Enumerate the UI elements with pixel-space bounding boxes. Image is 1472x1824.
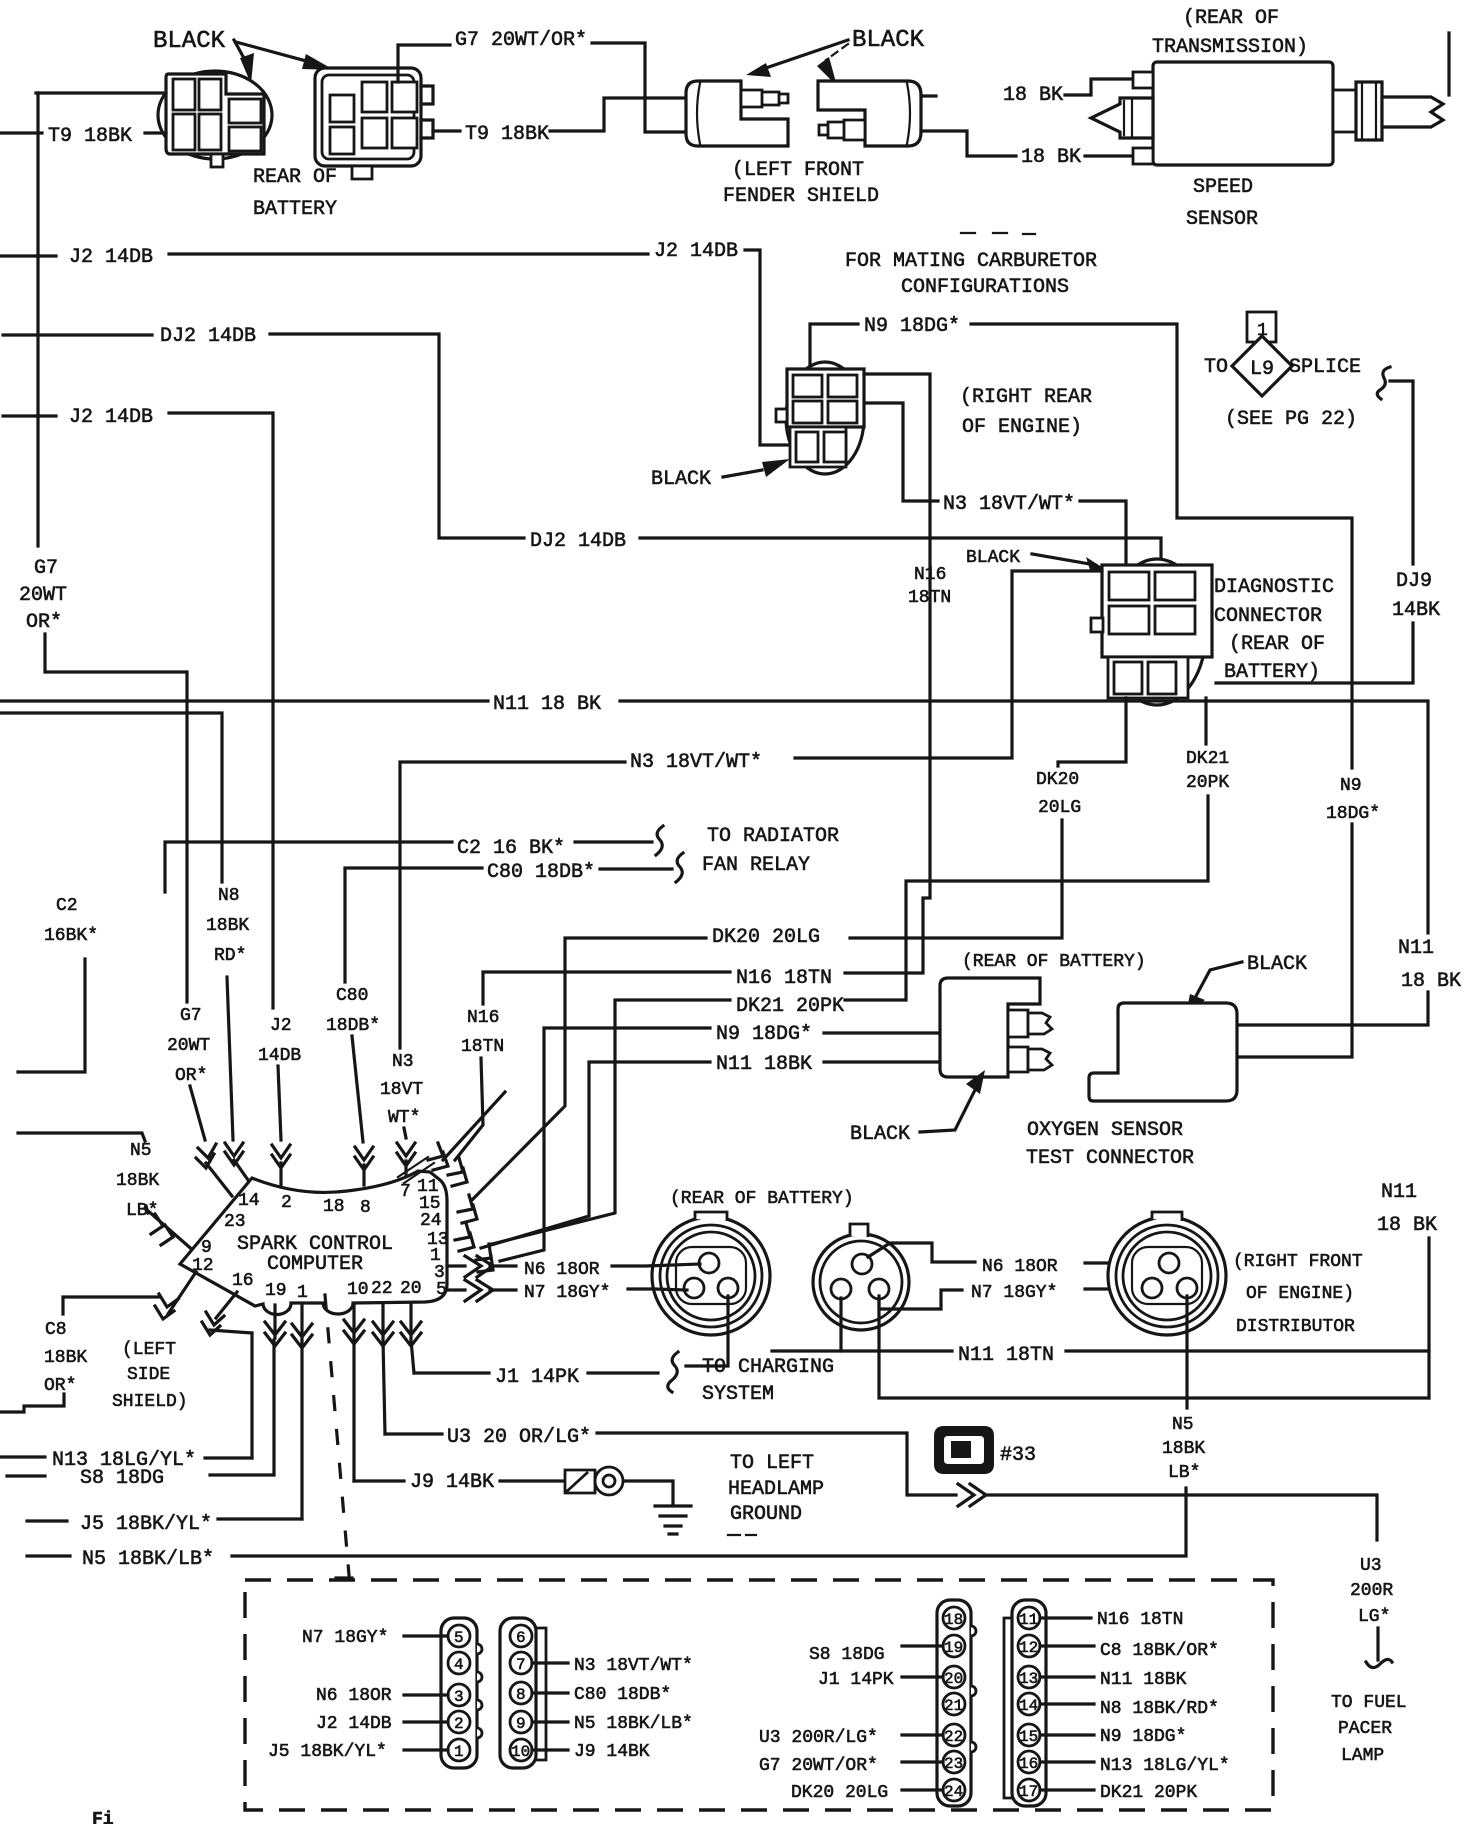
svg-text:3: 3 — [454, 1688, 464, 1706]
wire G7 to pin 23 — [902, 1760, 943, 1763]
holder D pin 16 — [1018, 1751, 1040, 1773]
carb connector back circle — [786, 362, 864, 474]
svg-text:N3: N3 — [392, 1052, 414, 1072]
svg-text:REAR OF: REAR OF — [253, 166, 337, 189]
break symbol radiator upper — [656, 826, 663, 855]
arrow to connector C2 — [236, 42, 334, 70]
connector C1 cavity 5 — [229, 99, 261, 123]
svg-text:BLACK: BLACK — [852, 27, 925, 54]
wire U3 below label to hook — [1376, 1628, 1379, 1660]
svg-text:J5 18BK/YL*: J5 18BK/YL* — [268, 1742, 387, 1762]
distributor middle inner circle — [820, 1241, 902, 1323]
svg-text:22: 22 — [371, 1279, 393, 1299]
headlamp bulb inner — [603, 1475, 615, 1487]
connector C2 cavity E — [362, 118, 387, 148]
speed sensor left plug — [1091, 98, 1153, 138]
svg-text:20: 20 — [944, 1670, 963, 1688]
svg-text:LB*: LB* — [126, 1201, 158, 1221]
wire N16 column down to pin 15 diagonal — [455, 1058, 483, 1160]
diagnostic connector lower body — [1108, 657, 1188, 698]
svg-text:SIDE: SIDE — [127, 1365, 170, 1385]
wire into C1 top left — [36, 91, 166, 94]
carb connector body lower — [790, 427, 846, 467]
holder B pin 7 — [510, 1652, 532, 1674]
bullet connector right body — [818, 81, 921, 146]
wire N3 second label right to diagnostic — [795, 571, 1102, 758]
connector C2 cavity C — [362, 82, 387, 112]
wire carb connector right mid to N3 label — [866, 403, 938, 501]
svg-text:14: 14 — [1019, 1697, 1038, 1715]
distributor right pin bl — [1142, 1278, 1162, 1298]
speed sensor shaft — [1382, 97, 1443, 127]
svg-text:SYSTEM: SYSTEM — [702, 1383, 774, 1406]
diagnostic connector cavity 5 — [1114, 662, 1142, 694]
distributor right pin top — [1159, 1253, 1179, 1273]
svg-text:SPEED: SPEED — [1193, 176, 1253, 199]
svg-text:5: 5 — [454, 1629, 464, 1647]
wire pin 8 to C80 — [532, 1691, 568, 1694]
distributor right inner circle — [1123, 1232, 1211, 1320]
wire C2 label left elbow down — [165, 842, 452, 892]
wire pin 14 to N8 — [1040, 1702, 1094, 1705]
spark control computer body — [180, 1171, 447, 1315]
svg-text:TO CHARGING: TO CHARGING — [702, 1356, 834, 1379]
wire N6 to pin 3 — [404, 1693, 448, 1696]
svg-text:20WT: 20WT — [19, 584, 67, 607]
svg-text:N7 18GY*: N7 18GY* — [524, 1283, 610, 1303]
splice wire curl — [1377, 367, 1390, 399]
holder A pin 3 — [448, 1684, 470, 1706]
arrow chevron pin 5 to N7 — [447, 1280, 516, 1301]
svg-text:DK21: DK21 — [1186, 749, 1229, 769]
wire stub left N5 — [18, 1133, 145, 1141]
wire right bullet to 18 BK upper — [921, 94, 936, 97]
arrow to connector C1 — [234, 40, 254, 84]
svg-text:18 BK: 18 BK — [1401, 970, 1461, 993]
svg-text:DJ2 14DB: DJ2 14DB — [160, 325, 256, 348]
svg-text:11: 11 — [1019, 1611, 1038, 1629]
svg-text:J1 14PK: J1 14PK — [495, 1366, 579, 1389]
svg-text:N5: N5 — [130, 1141, 152, 1161]
svg-text:FOR MATING CARBURETOR: FOR MATING CARBURETOR — [845, 250, 1097, 273]
wire U3 to pin 22 — [902, 1733, 943, 1736]
carb connector cavity 2 — [828, 375, 857, 397]
svg-text:16: 16 — [1019, 1755, 1038, 1773]
wire distributor left br pin to charging break — [686, 1296, 728, 1366]
svg-text:C80 18DB*: C80 18DB* — [487, 861, 595, 884]
dashed diagonal tick — [336, 1576, 352, 1579]
holder A pin 4 — [448, 1652, 470, 1674]
wire J1 to pin 20 — [902, 1675, 943, 1678]
svg-text:TRANSMISSION): TRANSMISSION) — [1152, 36, 1308, 59]
distributor middle pin top — [852, 1254, 872, 1274]
svg-text:(SEE PG 22): (SEE PG 22) — [1225, 408, 1357, 431]
svg-text:18BK: 18BK — [1162, 1439, 1205, 1459]
wire middle right pin to N7 bracket — [879, 1290, 962, 1309]
wire N7 right label to right distributor — [1085, 1287, 1145, 1290]
svg-text:N6 18OR: N6 18OR — [316, 1686, 392, 1706]
svg-text:14BK: 14BK — [1392, 599, 1440, 622]
svg-text:Fi: Fi — [92, 1810, 114, 1824]
wire main left vertical G7 — [36, 93, 39, 546]
svg-text:LB*: LB* — [1168, 1463, 1200, 1483]
wire N13 to vertical — [205, 1456, 252, 1459]
wire N7 left label to distributor — [628, 1289, 687, 1290]
svg-text:18 BK: 18 BK — [1377, 1214, 1437, 1237]
arrow chevron pin 2 — [272, 1145, 290, 1185]
wire G7 column to computer pin 23 — [190, 1086, 205, 1140]
arrow BLACK to left bullet — [746, 40, 848, 77]
arrow chevron pin 14 — [225, 1143, 248, 1180]
diagnostic connector body — [1102, 565, 1212, 657]
svg-text:22: 22 — [944, 1728, 963, 1746]
wire DJ2 to elbow — [270, 334, 524, 538]
wire DK21 left to corner vertical and diagonal to pin 13 — [492, 1000, 730, 1244]
wire C80 label right to break — [600, 867, 672, 870]
wire N3 label right into diagnostic connector — [1080, 501, 1126, 566]
arrow chevron pin 22 (down) — [373, 1305, 393, 1346]
speed sensor right boss — [1333, 90, 1356, 132]
arrow BLACK to right bullet (dashed shaft) — [817, 44, 848, 86]
svg-text:18DG*: 18DG* — [1326, 804, 1380, 824]
connector C1 cavity 2 — [199, 79, 221, 110]
svg-text:N11 18 BK: N11 18 BK — [493, 693, 601, 716]
svg-text:N16 18TN: N16 18TN — [1097, 1610, 1183, 1630]
wire N9 left stack right to oxygen connector — [824, 1031, 939, 1034]
holder B pin 8 — [510, 1682, 532, 1704]
wire N16 left stack right segment — [845, 971, 923, 974]
svg-text:GROUND: GROUND — [730, 1503, 802, 1526]
svg-text:8: 8 — [360, 1198, 371, 1218]
svg-text:BLACK: BLACK — [651, 468, 711, 491]
connector C1 cavity 3 — [173, 114, 195, 150]
svg-text:LG*: LG* — [1358, 1607, 1390, 1627]
wire DJ2 second to diagnostic connector — [640, 538, 1161, 566]
svg-text:N6 18OR: N6 18OR — [524, 1260, 600, 1280]
connector C2 bottom tab — [352, 166, 372, 179]
svg-text:U3 200R/LG*: U3 200R/LG* — [759, 1728, 878, 1748]
speed sensor hex nut — [1356, 82, 1382, 140]
svg-text:J2: J2 — [270, 1016, 292, 1036]
wire DK20 right to column vertical — [850, 820, 1062, 938]
svg-text:OR*: OR* — [44, 1376, 76, 1396]
svg-text:RD*: RD* — [214, 946, 246, 966]
wire N6 left label to distributor — [612, 1264, 700, 1266]
svg-text:S8 18DG: S8 18DG — [80, 1467, 164, 1490]
wire pin 10 to J9 — [532, 1748, 568, 1751]
arrow chevron pin 20 (down) — [401, 1305, 421, 1346]
svg-text:N8: N8 — [218, 886, 240, 906]
wire N11 left stack right to oxygen connector — [824, 1060, 939, 1063]
holder A pin 2 — [448, 1711, 470, 1733]
wire T9 label to bullet connector — [550, 98, 686, 131]
oxygen connector right body — [1089, 1003, 1237, 1101]
carb connector left tab — [776, 409, 787, 422]
speed sensor plug detail — [1124, 99, 1132, 137]
arrow BLACK to diagnostic connector — [1032, 554, 1116, 576]
carb connector cavity 5 — [796, 432, 818, 462]
svg-text:18: 18 — [323, 1197, 345, 1217]
svg-text:TEST CONNECTOR: TEST CONNECTOR — [1026, 1147, 1194, 1170]
speed sensor left upper terminal — [1133, 72, 1153, 88]
svg-text:20WT: 20WT — [167, 1036, 210, 1056]
svg-text:N8 18BK/RD*: N8 18BK/RD* — [1100, 1699, 1219, 1719]
stray dashes below bullets — [961, 233, 1035, 234]
svg-text:19: 19 — [944, 1639, 963, 1657]
holder B pin 10 — [510, 1739, 532, 1761]
distributor middle outer circle — [813, 1234, 909, 1330]
svg-text:9: 9 — [201, 1238, 212, 1258]
connector icon inner white — [944, 1436, 984, 1464]
connector C2 cavity D — [392, 82, 417, 112]
dashed box — [245, 1580, 1273, 1810]
wire pin 19 to S8 — [272, 1340, 275, 1474]
wire J2 label to second label — [169, 252, 648, 255]
bullet connector left body — [686, 81, 788, 146]
speed sensor body — [1153, 62, 1333, 165]
svg-text:S8 18DG: S8 18DG — [809, 1645, 885, 1665]
connector icon inner black — [951, 1441, 971, 1458]
svg-text:1: 1 — [297, 1283, 308, 1303]
svg-text:2: 2 — [454, 1715, 464, 1733]
svg-text:C80 18DB*: C80 18DB* — [574, 1685, 671, 1705]
oxygen connector prong 2 tip — [1028, 1049, 1052, 1070]
holder A bumps — [477, 1644, 482, 1738]
svg-text:18VT: 18VT — [380, 1080, 423, 1100]
break arrows N5 to computer — [146, 1206, 196, 1253]
svg-text:20PK: 20PK — [1186, 773, 1229, 793]
left table holder B — [500, 1618, 536, 1768]
svg-text:21: 21 — [944, 1697, 963, 1715]
wire N11 left to corner vertical diagonal to pin 13b — [481, 1062, 710, 1248]
svg-text:(RIGHT REAR: (RIGHT REAR — [960, 386, 1092, 409]
svg-text:J2 14DB: J2 14DB — [654, 240, 738, 263]
splice diamond L9 — [1232, 336, 1292, 396]
wire 18 BK upper to speed sensor — [1065, 79, 1133, 95]
svg-text:18DB*: 18DB* — [326, 1016, 380, 1036]
right table holder C — [937, 1600, 971, 1806]
svg-text:1: 1 — [454, 1743, 464, 1761]
svg-text:BLACK: BLACK — [966, 548, 1020, 568]
svg-text:G7 20WT/OR*: G7 20WT/OR* — [759, 1756, 878, 1776]
wire middle right pin down to long line — [879, 1296, 1429, 1398]
bullet connector left detail line — [697, 83, 700, 144]
svg-text:23: 23 — [944, 1755, 963, 1773]
svg-text:13: 13 — [1019, 1670, 1038, 1688]
wire lamp to ground — [625, 1481, 673, 1504]
holder C pin 19 — [943, 1635, 965, 1657]
svg-text:OF ENGINE): OF ENGINE) — [962, 416, 1082, 439]
svg-text:DJ9: DJ9 — [1396, 570, 1432, 593]
svg-text:N9 18DG*: N9 18DG* — [864, 315, 960, 338]
svg-text:12: 12 — [1019, 1639, 1038, 1657]
wire stub S8 — [7, 1474, 45, 1477]
wire N11 long line right — [620, 701, 1428, 933]
wire stub N13 — [0, 1455, 45, 1458]
svg-text:2: 2 — [281, 1193, 292, 1213]
holder B pin 9 — [510, 1711, 532, 1733]
svg-text:OR*: OR* — [26, 611, 62, 634]
holder D pin 14 — [1018, 1693, 1040, 1715]
wire DK20 left to corner and diagonal to pin 24 — [472, 938, 706, 1200]
svg-text:DISTRIBUTOR: DISTRIBUTOR — [1236, 1317, 1355, 1337]
wire N8 column to computer pin 14 — [227, 977, 233, 1140]
holder D pin 17 — [1018, 1779, 1040, 1801]
wire J1 label left — [414, 1371, 489, 1374]
svg-text:18BK: 18BK — [44, 1348, 87, 1368]
diagnostic connector cavity 4 — [1155, 606, 1195, 634]
svg-text:7: 7 — [400, 1182, 411, 1202]
wire N11 long line left — [0, 699, 488, 702]
page edge artifact line — [1447, 33, 1450, 95]
holder C pin 23 — [943, 1751, 965, 1773]
svg-text:16: 16 — [232, 1271, 254, 1291]
svg-text:C2 16 BK*: C2 16 BK* — [457, 837, 565, 860]
bullet connector right detail line — [907, 83, 910, 144]
svg-text:DJ2 14DB: DJ2 14DB — [530, 530, 626, 553]
headlamp bulb outer — [595, 1467, 623, 1495]
carb connector cavity 1 — [793, 375, 822, 397]
arrow chevron pin 18 — [355, 1147, 373, 1185]
oxygen connector prong 1 — [1008, 1010, 1028, 1037]
carb connector body upper — [787, 369, 864, 427]
connector C1 body — [166, 74, 264, 154]
svg-text:23: 23 — [224, 1212, 246, 1232]
diagnostic connector cavity 2 — [1155, 572, 1195, 600]
arrow chevron pin 11 with diagonal — [428, 1092, 505, 1170]
svg-text:N13 18LG/YL*: N13 18LG/YL* — [1100, 1756, 1230, 1776]
svg-text:4: 4 — [454, 1656, 464, 1674]
wire stub N5 — [27, 1554, 70, 1557]
svg-text:7: 7 — [516, 1656, 526, 1674]
svg-text:9: 9 — [516, 1715, 526, 1733]
wire J9 label right to lamp — [500, 1479, 563, 1482]
connector C2 outer shell — [315, 68, 421, 166]
svg-text:N9 18DG*: N9 18DG* — [716, 1023, 812, 1046]
svg-text:18 BK: 18 BK — [1021, 146, 1081, 169]
distributor left keyway — [676, 1247, 746, 1304]
oxygen connector prong 1 tip — [1028, 1013, 1052, 1034]
svg-text:24: 24 — [420, 1211, 442, 1231]
holder C pin 18 — [943, 1607, 965, 1629]
holder D pin 15 — [1018, 1724, 1040, 1746]
holder C bumps — [971, 1626, 976, 1752]
connector C2 inner shell — [322, 75, 414, 159]
wire N3 column to computer pin 7 — [404, 1128, 406, 1138]
wire N11 below label to oxygen connector — [1237, 992, 1428, 1025]
ground symbol — [655, 1506, 691, 1534]
svg-text:6: 6 — [516, 1629, 526, 1647]
wire pin 7 to N3 — [532, 1661, 568, 1664]
wire N7 to pin 5 — [404, 1634, 448, 1637]
distributor left pin top — [699, 1253, 719, 1273]
svg-text:TO LEFT: TO LEFT — [730, 1452, 814, 1475]
arrow chevron pin 23 — [196, 1144, 232, 1196]
svg-text:LAMP: LAMP — [1341, 1746, 1384, 1766]
svg-text:WT*: WT* — [388, 1108, 420, 1128]
connector C2 cavity A — [330, 95, 354, 122]
wire DK20 to pin 24 — [902, 1788, 943, 1791]
svg-text:L9: L9 — [1250, 358, 1274, 381]
svg-text:N9 18DG*: N9 18DG* — [1100, 1727, 1186, 1747]
wire G7 below label — [45, 634, 187, 1002]
wire left distributor bl pin down (N11 18TN line) — [839, 1298, 842, 1351]
connector C1 rear of battery (circle back) — [158, 71, 272, 159]
svg-text:J2 14DB: J2 14DB — [69, 246, 153, 269]
wire N11 lower label down to corner — [1427, 1238, 1430, 1398]
svg-text:G7: G7 — [34, 557, 58, 580]
wire N16 column up to horizontal — [483, 972, 730, 1004]
svg-text:PACER: PACER — [1338, 1719, 1392, 1739]
wire middle top pin to N6 bracket — [868, 1243, 975, 1262]
svg-text:(REAR OF BATTERY): (REAR OF BATTERY) — [962, 952, 1146, 972]
svg-text:DK21 20PK: DK21 20PK — [736, 995, 844, 1018]
wire N8 stub and vertical — [0, 713, 222, 882]
connector C2 cavity B — [330, 127, 354, 154]
wire pin 22 to U3 — [383, 1340, 385, 1434]
connector C1 bottom tab — [211, 154, 223, 167]
svg-text:DK20 20LG: DK20 20LG — [791, 1783, 888, 1803]
svg-text:N5 18BK/LB*: N5 18BK/LB* — [82, 1548, 214, 1571]
svg-text:N11: N11 — [1381, 1181, 1417, 1204]
svg-text:20: 20 — [400, 1279, 422, 1299]
distributor middle pin left — [831, 1279, 851, 1299]
wire J2 to pin 2 — [404, 1720, 448, 1723]
wire right bullet lower to 18 BK — [921, 131, 1016, 156]
svg-text:N7 18GY*: N7 18GY* — [302, 1628, 388, 1648]
svg-text:T9 18BK: T9 18BK — [48, 125, 132, 148]
svg-text:HEADLAMP: HEADLAMP — [728, 1478, 824, 1501]
svg-text:N3 18VT/WT*: N3 18VT/WT* — [943, 493, 1075, 516]
svg-text:SPLICE: SPLICE — [1289, 356, 1361, 379]
wire N9 label right to elbow down — [971, 324, 1352, 768]
wire J2 second label elbow down — [745, 250, 788, 445]
stray dashes below ground label — [728, 1534, 756, 1536]
distributor middle pin right — [869, 1279, 889, 1299]
wire N9 label left into carb connector — [810, 324, 858, 372]
svg-text:G7: G7 — [180, 1006, 202, 1026]
svg-text:N9: N9 — [1340, 776, 1362, 796]
wire pin 9 to N5 — [532, 1720, 568, 1723]
svg-text:TO RADIATOR: TO RADIATOR — [707, 825, 839, 848]
svg-text:J1 14PK: J1 14PK — [818, 1670, 894, 1690]
wire pin 10 to J9 — [352, 1338, 355, 1481]
arrow chevron pin 16 (down-left) — [202, 1292, 252, 1335]
carb connector cavity 4 — [828, 401, 857, 423]
svg-text:(LEFT FRONT: (LEFT FRONT — [732, 159, 864, 182]
connector C2 right tab 1 — [421, 86, 433, 104]
wire splice to DJ9 column — [1390, 381, 1413, 564]
wire pin 15 to N9 — [1040, 1733, 1094, 1736]
svg-text:U3: U3 — [1360, 1556, 1382, 1576]
wire C80 column to computer pin 18 — [352, 1036, 363, 1142]
svg-text:TO FUEL: TO FUEL — [1331, 1693, 1407, 1713]
svg-text:N5 18BK/LB*: N5 18BK/LB* — [574, 1714, 693, 1734]
oxygen connector left body — [940, 978, 1040, 1077]
svg-text:24: 24 — [944, 1783, 963, 1801]
arrow chevron pin 12 (down-left) — [63, 1272, 196, 1319]
distributor left inner circle — [667, 1232, 755, 1320]
svg-text:N16: N16 — [914, 565, 946, 585]
splice symbol box 1 — [1247, 312, 1276, 342]
wire right distributor br pin down N5 column — [1185, 1296, 1188, 1408]
wire DK21 column above label to diagnostic — [1204, 698, 1207, 744]
wire stub left DJ2 — [3, 333, 152, 336]
svg-text:BLACK: BLACK — [153, 28, 226, 55]
wire C80 label left elbow down — [345, 868, 482, 982]
svg-text:J5 18BK/YL*: J5 18BK/YL* — [80, 1513, 212, 1536]
wire U3 label right long — [597, 1433, 956, 1495]
